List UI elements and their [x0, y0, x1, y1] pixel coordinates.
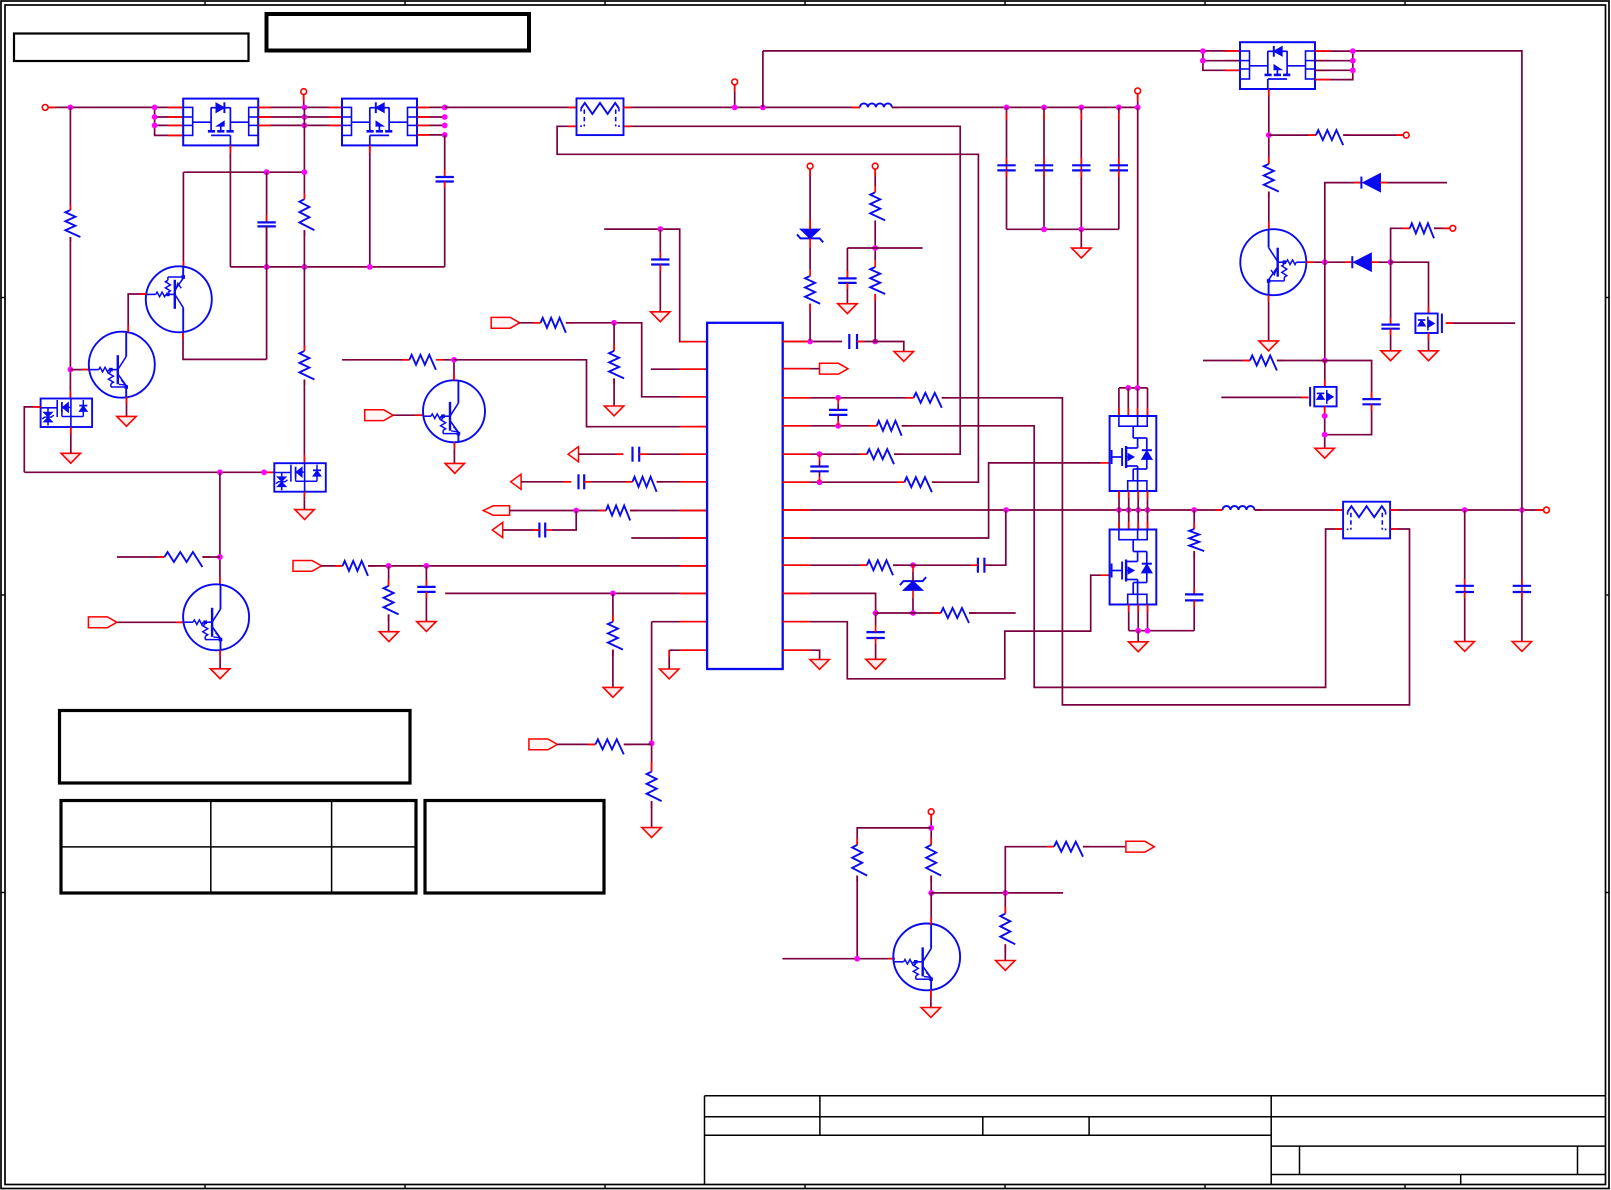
wire — [1006, 170, 1008, 229]
terminal — [1403, 132, 1409, 138]
terminal VIN2 — [301, 89, 307, 95]
wire — [1325, 404, 1372, 434]
wire — [521, 481, 571, 483]
junction — [872, 339, 878, 345]
junction — [1004, 105, 1010, 111]
wire pin6R — [783, 481, 905, 483]
wire — [1118, 170, 1120, 229]
resistor R25 — [1410, 223, 1441, 238]
resistor R12 — [608, 622, 623, 656]
net flag — [491, 317, 520, 328]
wire — [857, 342, 904, 352]
wire — [1137, 491, 1139, 510]
ground — [604, 406, 623, 416]
wire — [1193, 551, 1195, 594]
junction — [835, 423, 841, 429]
capacitor C14 — [997, 165, 1015, 170]
junction — [217, 469, 223, 475]
ground — [894, 352, 913, 362]
net flag — [568, 447, 578, 462]
resistor R3 — [299, 345, 314, 385]
net flag — [529, 739, 558, 750]
wire Q10 emitter — [1268, 295, 1270, 341]
capacitor C10 — [829, 398, 847, 426]
wire pin8L — [631, 537, 707, 539]
wire — [930, 893, 932, 925]
wire — [1324, 361, 1326, 387]
wire — [1380, 182, 1447, 184]
ground — [651, 312, 670, 322]
junction — [451, 357, 457, 363]
junction — [68, 105, 74, 111]
inductor L2 — [1215, 506, 1262, 510]
ground — [838, 304, 857, 314]
junction — [68, 367, 74, 373]
junction — [611, 320, 617, 326]
ground — [921, 1008, 940, 1018]
junction — [1266, 132, 1272, 138]
wire — [1006, 107, 1008, 165]
junction — [1350, 48, 1356, 54]
wire — [24, 407, 40, 472]
wire — [612, 593, 614, 621]
capacitor C20 — [1513, 586, 1531, 592]
junction — [872, 245, 878, 251]
mosfet Q12 — [1310, 387, 1337, 407]
wire — [557, 743, 595, 745]
wire — [639, 453, 707, 455]
junction — [1041, 105, 1047, 111]
wire — [651, 801, 653, 828]
resistor R30 — [1000, 914, 1015, 951]
capacitor C18 — [1185, 594, 1203, 600]
junction — [1322, 358, 1328, 364]
junction — [367, 264, 373, 270]
ground — [210, 669, 229, 679]
junction — [657, 226, 663, 232]
junction — [1322, 413, 1328, 419]
wire — [445, 106, 577, 108]
wire — [388, 614, 390, 631]
wire Q11 gate — [1446, 322, 1515, 324]
wire — [1147, 510, 1149, 530]
junction — [1462, 507, 1468, 513]
junction — [1200, 48, 1206, 54]
table bottom-left — [61, 801, 416, 894]
terminal — [1135, 88, 1141, 94]
wire — [1147, 388, 1149, 416]
capacitor C3 — [651, 260, 669, 265]
wire — [1128, 491, 1130, 510]
wire — [1521, 510, 1523, 586]
wire — [734, 85, 736, 108]
wire — [659, 265, 661, 312]
junction — [573, 508, 579, 514]
resistor R21 — [941, 608, 976, 623]
capacitor C21 — [1381, 325, 1399, 329]
wire — [624, 743, 652, 745]
wire — [763, 50, 1240, 52]
junction — [649, 740, 655, 746]
notes box bottom-left — [60, 711, 411, 784]
capacitor C16 — [1072, 165, 1090, 170]
wire — [48, 106, 183, 108]
terminal — [807, 163, 813, 169]
ground — [445, 463, 464, 473]
wire — [1080, 107, 1082, 165]
junction — [302, 169, 308, 175]
wire — [1464, 592, 1466, 642]
wire Q9 drain — [1268, 89, 1270, 164]
mosfet Q9 package — [1240, 42, 1315, 89]
zener D4 — [900, 565, 926, 613]
net flag — [511, 474, 521, 489]
wire — [219, 472, 221, 585]
resistor R18 — [860, 449, 901, 464]
wire — [931, 892, 1063, 894]
junction — [1200, 58, 1206, 64]
wire — [1137, 631, 1139, 642]
junction — [261, 469, 267, 475]
junction — [302, 114, 308, 120]
dual diode D1 — [41, 399, 93, 428]
wire — [1428, 333, 1430, 351]
mosfet Q2 package — [342, 99, 417, 146]
wire — [1193, 510, 1195, 529]
wire pin4R — [783, 425, 877, 427]
wire Q5 emitter — [219, 650, 221, 669]
ground — [1419, 351, 1438, 361]
thick note box top — [267, 14, 530, 51]
wire — [984, 510, 1005, 565]
wire — [453, 360, 455, 381]
mosfet Q11 — [1415, 314, 1442, 334]
wire — [1255, 509, 1344, 511]
transformer T2 — [1343, 502, 1390, 539]
capacitor C6 — [539, 523, 545, 538]
wire Q1 drain — [229, 145, 231, 267]
wire — [266, 226, 268, 359]
junction — [152, 105, 158, 111]
resistor R20 — [860, 560, 900, 575]
wire pin11R — [783, 575, 1110, 679]
wire row613 — [876, 612, 941, 614]
wire — [1128, 510, 1130, 530]
ground — [660, 669, 679, 679]
junction — [1041, 226, 1047, 232]
ground — [1455, 642, 1474, 652]
transformer T1 — [577, 98, 624, 135]
wire — [1137, 510, 1139, 530]
junction — [1116, 507, 1122, 513]
wire — [902, 426, 1343, 688]
junction — [1145, 507, 1151, 513]
wire — [1390, 329, 1392, 351]
junction — [1135, 385, 1141, 391]
wire — [1391, 509, 1544, 511]
wire — [1043, 170, 1045, 229]
node bus left of Q1pkg — [155, 107, 184, 135]
junction — [732, 105, 738, 111]
junction — [873, 610, 879, 616]
resistor R10 — [343, 561, 375, 576]
junction — [264, 169, 270, 175]
resistor R16 — [906, 393, 949, 408]
junction — [835, 395, 841, 401]
wire — [1137, 388, 1139, 416]
resistor column2 — [870, 220, 885, 341]
title box top-left — [14, 34, 249, 62]
junction — [817, 451, 823, 457]
resistor R27 — [852, 845, 867, 882]
box bottom-left 2 — [425, 801, 604, 894]
wire — [1080, 170, 1082, 229]
capacitor C15 — [1035, 165, 1053, 170]
wire Q3 base to Q4 collector — [128, 294, 146, 332]
wire — [342, 359, 409, 361]
wire — [1343, 134, 1403, 136]
wire — [1193, 600, 1195, 630]
wire — [782, 958, 895, 960]
ground — [603, 687, 622, 697]
ground — [417, 622, 436, 632]
wire — [1315, 69, 1353, 71]
junction — [1350, 67, 1356, 73]
wire — [1118, 388, 1120, 416]
wire — [1147, 605, 1149, 631]
wire — [1080, 229, 1082, 248]
wire — [1004, 893, 1006, 914]
wire — [117, 621, 184, 623]
resistor R14 — [647, 772, 662, 808]
wire — [266, 172, 268, 222]
wire — [1390, 262, 1392, 324]
resistor R13 — [596, 739, 632, 754]
wire — [969, 612, 1016, 614]
resistor R9 — [606, 506, 637, 521]
wire — [303, 107, 305, 199]
capacitor C2 — [257, 222, 275, 226]
wire — [1203, 51, 1240, 70]
junction — [1116, 105, 1122, 111]
resistor R24 — [1264, 164, 1279, 198]
junction — [302, 105, 308, 111]
terminal — [928, 809, 934, 815]
resistor R11 — [384, 586, 399, 621]
wire pin12L — [669, 649, 707, 651]
wire — [1083, 846, 1126, 848]
resistor R6 — [541, 318, 573, 333]
transistor Q4 — [89, 332, 155, 398]
net flag — [293, 561, 322, 572]
ic U1 — [707, 323, 783, 669]
capacitor C1 — [436, 177, 454, 182]
wire — [1277, 360, 1325, 362]
resistor R4 — [164, 552, 210, 567]
ground — [996, 961, 1015, 971]
junction — [1519, 507, 1525, 513]
wire pin12R — [783, 650, 820, 659]
wire — [566, 323, 707, 397]
wire — [444, 135, 446, 177]
resistor R5 — [409, 355, 443, 370]
junction — [1126, 507, 1132, 513]
wire — [1127, 388, 1129, 416]
wire — [1521, 592, 1523, 642]
wire right of Q2pkg — [417, 107, 444, 134]
wire — [1005, 847, 1054, 893]
wire pin10L — [445, 592, 707, 594]
junction — [442, 105, 448, 111]
ground — [866, 659, 885, 669]
junction — [1078, 105, 1084, 111]
wire — [1004, 944, 1006, 960]
wire — [668, 650, 670, 669]
capacitor C7 — [417, 587, 435, 592]
junction — [1191, 507, 1197, 513]
wire — [444, 182, 446, 267]
wire — [942, 398, 1410, 705]
wire — [266, 226, 268, 267]
junction — [1003, 507, 1009, 513]
junction — [1350, 58, 1356, 64]
wire pin7R rail — [783, 509, 1223, 511]
wire — [545, 511, 576, 531]
junction — [302, 123, 308, 129]
wire fet top bar — [1119, 387, 1148, 389]
wire Q10 base — [1306, 261, 1352, 263]
wire — [1118, 491, 1120, 510]
junction — [910, 562, 916, 568]
wire — [70, 427, 72, 444]
terminal — [872, 163, 878, 169]
ground — [1315, 448, 1334, 458]
wire — [303, 492, 305, 500]
ground — [61, 444, 80, 464]
wire long down — [1137, 107, 1139, 388]
wire — [659, 229, 661, 259]
wire row3605 — [1203, 360, 1250, 362]
wire — [856, 876, 858, 959]
junction — [854, 956, 860, 962]
wire capgnd — [847, 248, 875, 278]
wire — [875, 247, 922, 249]
resistor R29 — [1054, 842, 1090, 857]
wire — [623, 106, 860, 108]
wire pin5R — [783, 453, 867, 455]
wire — [1043, 107, 1045, 165]
resistor R2 — [299, 193, 314, 236]
mosfet Q8 package — [1110, 530, 1157, 605]
wire — [443, 359, 454, 361]
wire — [519, 322, 541, 324]
terminal — [732, 79, 738, 85]
junction — [1125, 385, 1131, 391]
junction — [302, 264, 308, 270]
wire — [258, 107, 342, 125]
wire pin2R — [783, 368, 820, 370]
resistor R1 — [65, 205, 80, 242]
wire — [1147, 491, 1149, 510]
wire — [1268, 192, 1270, 230]
wire pin9R — [783, 564, 867, 566]
wire — [1324, 262, 1326, 360]
capacitor C19 — [1456, 586, 1474, 592]
ground — [295, 500, 314, 520]
ground — [1129, 642, 1148, 652]
transistor Q5 — [183, 584, 249, 650]
dual diode D2 — [274, 463, 326, 492]
ground — [117, 416, 136, 426]
wire — [1118, 510, 1120, 530]
wire — [1391, 228, 1410, 262]
resistor R22 — [1189, 529, 1204, 558]
wire — [510, 510, 606, 512]
wire — [579, 453, 624, 455]
resistor R8 — [633, 477, 664, 492]
zener D3 — [797, 229, 823, 242]
wire — [303, 380, 305, 464]
junction — [152, 123, 158, 129]
wire — [1118, 107, 1120, 165]
wire — [425, 592, 427, 622]
transistor Q3 — [146, 266, 212, 332]
junction — [442, 114, 448, 120]
wire — [117, 556, 164, 558]
net flag — [483, 506, 509, 515]
wire Q12 gate — [1221, 396, 1308, 398]
net flag — [492, 522, 502, 537]
net flag — [365, 410, 394, 421]
wire — [303, 230, 305, 351]
wire — [368, 565, 707, 567]
diode D5 — [1352, 253, 1371, 271]
wire — [69, 107, 71, 210]
wire — [651, 622, 653, 772]
input terminal J1 — [42, 105, 48, 111]
wire top long — [762, 51, 764, 108]
wire — [1464, 510, 1466, 586]
wire — [503, 529, 540, 531]
junction — [928, 890, 934, 896]
ground — [642, 828, 661, 838]
capacitor C4 — [633, 447, 640, 462]
wire — [303, 95, 305, 108]
junction — [424, 563, 430, 569]
wire fet bottom bar — [1129, 630, 1195, 632]
wire — [613, 323, 615, 351]
wire — [892, 106, 1138, 108]
junction — [1322, 259, 1328, 265]
wire pin1R — [783, 341, 842, 343]
wire pin11L — [652, 621, 708, 623]
net flag — [820, 363, 849, 374]
ground — [810, 660, 829, 670]
title block table — [705, 1096, 1606, 1185]
wire Q4 emitter — [126, 397, 128, 416]
net flag — [88, 617, 117, 628]
wire — [69, 237, 71, 399]
wire bus2 — [24, 471, 274, 473]
transistor Q10 — [1240, 229, 1306, 295]
wire — [657, 481, 708, 483]
diode D6 — [1361, 174, 1380, 192]
junction — [1322, 432, 1328, 438]
wire — [1128, 605, 1130, 631]
capacitor C17 — [1110, 165, 1128, 170]
wire — [809, 169, 811, 247]
junction — [152, 114, 158, 120]
